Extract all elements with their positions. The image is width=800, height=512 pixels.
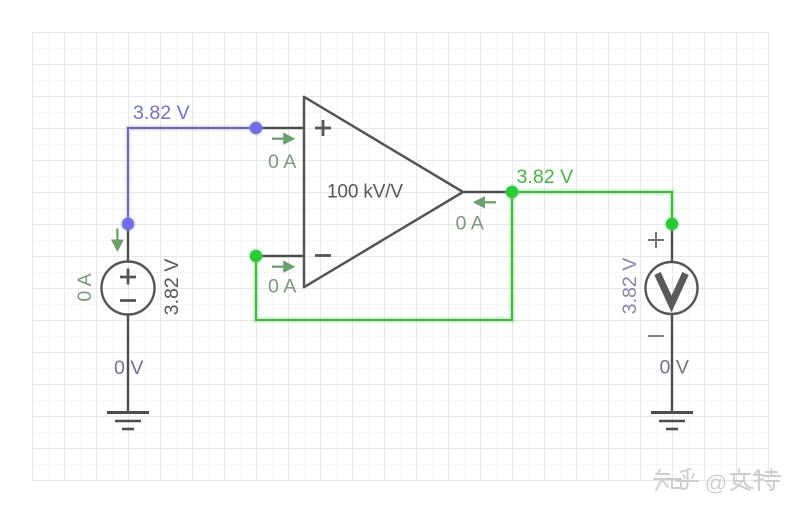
svg-text:0 A: 0 A	[268, 151, 297, 173]
svg-text:0 V: 0 V	[114, 357, 143, 379]
svg-text:3.82 V: 3.82 V	[619, 258, 641, 315]
svg-text:100 kV/V: 100 kV/V	[327, 182, 403, 203]
svg-text:0 A: 0 A	[456, 213, 485, 235]
svg-text:3.82 V: 3.82 V	[161, 259, 183, 316]
svg-text:3.82 V: 3.82 V	[517, 166, 574, 188]
svg-text:0 V: 0 V	[660, 357, 689, 379]
svg-text:@: @	[705, 471, 728, 496]
svg-text:0 A: 0 A	[268, 276, 297, 298]
svg-text:0 A: 0 A	[74, 272, 96, 301]
svg-text:3.82 V: 3.82 V	[133, 102, 190, 124]
